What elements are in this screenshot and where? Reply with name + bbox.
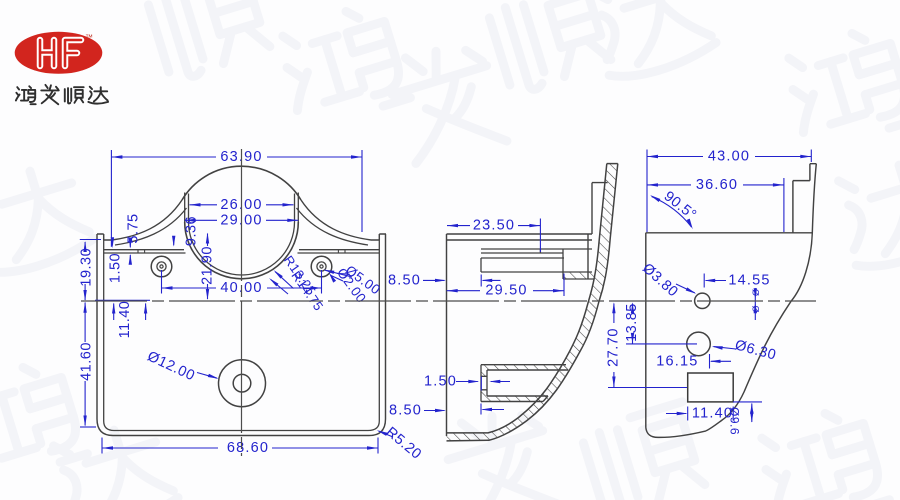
logo HF letters (40, 40, 81, 66)
section view channel top bar (481, 365, 568, 370)
svg-text:8.50: 8.50 (389, 403, 422, 419)
front view top right rim (371, 234, 386, 240)
dimension 40.00 (161, 270, 163, 294)
label diameter 12.00 (197, 373, 217, 379)
svg-text:11.40: 11.40 (117, 301, 133, 339)
dimension 11.40 (95, 299, 150, 301)
dimension 1.50 section (456, 381, 478, 383)
label diameter 6.30 (714, 347, 737, 349)
dimension 8.50 upper (423, 279, 445, 281)
dimension 21.90 (207, 234, 209, 247)
dimension 26.00 (190, 204, 218, 206)
label small vertical dim at hole (754, 288, 756, 320)
front view left mounting hole (151, 256, 172, 277)
label 9.6 (733, 401, 762, 403)
dimension 19.30 (80, 239, 101, 241)
side view left edge (645, 233, 647, 428)
svg-text:21.90: 21.90 (200, 246, 216, 285)
section view upper rib (481, 258, 592, 272)
section view hatch pattern wall (447, 164, 618, 441)
dimension 41.60 (84, 303, 86, 343)
front view top left rim (97, 234, 112, 240)
front view inner wall (104, 240, 380, 431)
svg-text:23.50: 23.50 (473, 218, 515, 234)
label angle 90.5 (652, 197, 692, 228)
section view left edge (446, 234, 448, 436)
svg-text:14.55: 14.55 (728, 273, 770, 289)
front view left fillet (112, 200, 182, 240)
svg-text:27.70: 27.70 (606, 328, 622, 367)
svg-text:8.50: 8.50 (388, 272, 421, 288)
dimension 5.75 (129, 239, 131, 247)
side view top tab (793, 164, 816, 233)
section view upper strip (481, 249, 592, 272)
logo company name (16, 86, 36, 104)
svg-text:19.30: 19.30 (79, 248, 95, 287)
svg-text:Ø9.6: Ø9.6 (728, 407, 742, 435)
side view rectangular cutout (688, 373, 734, 402)
svg-text:13.85: 13.85 (624, 303, 640, 342)
svg-text:16.15: 16.15 (656, 353, 698, 369)
label R13.25 (275, 272, 293, 289)
front view right mounting hole (311, 256, 332, 277)
svg-text:Ø: Ø (750, 305, 760, 312)
front view slot walls (185, 193, 299, 223)
svg-text:1.50: 1.50 (108, 253, 124, 283)
side view swept right edge (706, 164, 816, 431)
front view center boss hole (219, 360, 266, 407)
svg-text:68.60: 68.60 (227, 440, 269, 456)
dimension 11.40 side (666, 413, 686, 415)
label diameter 5.00 (325, 270, 352, 277)
section view channel bottom bar (481, 396, 548, 402)
svg-text:1.50: 1.50 (424, 374, 457, 390)
section view wall outline (447, 164, 618, 441)
vertical centerline of front view (241, 149, 243, 456)
dimension 14.55 (703, 274, 705, 288)
front view plate top edges (104, 250, 380, 253)
front view bore arcs (185, 222, 299, 279)
dimension 43.00 (646, 150, 648, 233)
side view bottom edge (646, 428, 706, 438)
label diameter 3.80 (676, 284, 695, 293)
svg-text:43.00: 43.00 (708, 149, 750, 165)
section view top tab (588, 183, 608, 279)
logo HF ellipse (15, 32, 103, 74)
dimension 36.60 (783, 178, 785, 232)
dimension 16.15 (709, 354, 711, 369)
section view top plate (447, 234, 593, 240)
svg-text:36.60: 36.60 (696, 177, 738, 193)
dimension 63.90 (110, 150, 112, 247)
dimension 27.70 (613, 304, 615, 324)
svg-text:™: ™ (85, 33, 93, 42)
side view top edge (646, 232, 813, 234)
label R5.20 (379, 431, 394, 437)
front view right fillet (301, 200, 371, 240)
watermark text background (145, 0, 274, 83)
horizontal centerline (81, 300, 816, 302)
front view plate top tick marks (138, 250, 345, 253)
section view upper rib hatched foot (563, 272, 595, 279)
dimension 29.00 (185, 219, 217, 221)
dimension 29.50 (447, 290, 480, 292)
svg-text:29.50: 29.50 (485, 283, 527, 299)
svg-text:41.60: 41.60 (79, 342, 95, 381)
side view middle hole (687, 332, 711, 356)
label R14.75 (271, 280, 288, 295)
svg-text:Ø: Ø (750, 289, 760, 296)
front view outer body (97, 234, 386, 436)
dimension 68.60 (101, 438, 103, 454)
svg-text:9.36: 9.36 (184, 216, 200, 246)
front view boss outer arc (182, 166, 301, 200)
svg-text:5.75: 5.75 (126, 213, 142, 243)
label diameter 2.00 (331, 275, 344, 281)
section view channel left wall (481, 365, 487, 377)
svg-text:11.40: 11.40 (692, 406, 733, 422)
dimension 13.85 (632, 304, 634, 309)
side view small hole (695, 293, 710, 308)
dimension 23.50 (447, 225, 470, 227)
dimension 8.50 lower (424, 410, 445, 412)
